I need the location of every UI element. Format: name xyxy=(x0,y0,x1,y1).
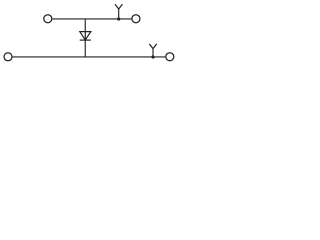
tap plug symbol top (Y) xyxy=(115,4,122,9)
tap plug symbol bottom (Y) xyxy=(149,44,156,49)
wire tap stem bottom xyxy=(152,49,154,57)
wire top rail xyxy=(52,18,131,20)
terminal circle X2.1 (bottom-left) xyxy=(4,53,12,61)
wire diode branch upper xyxy=(84,19,86,32)
wire tap stem top xyxy=(118,9,120,19)
terminal circle X2.2 (bottom-right) xyxy=(166,53,174,61)
terminal circle X1.1 (top-left) xyxy=(44,15,52,23)
wire diode branch lower xyxy=(84,40,86,57)
node junction dot top xyxy=(117,17,120,20)
node junction dot bottom xyxy=(151,55,154,58)
terminal circle X1.2 (top-right) xyxy=(132,15,140,23)
diode D1 xyxy=(80,32,91,40)
wire bottom rail xyxy=(13,56,166,58)
